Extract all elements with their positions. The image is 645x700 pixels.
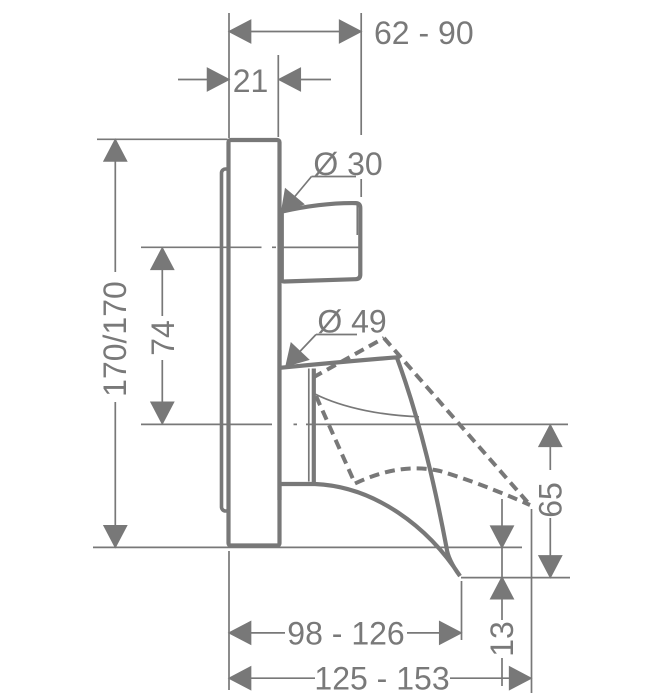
dimension 125-153 line bbox=[251, 677, 510, 679]
bottom extension line projected tip (x=531) bbox=[531, 509, 533, 693]
svg-text:21: 21 bbox=[233, 63, 269, 99]
svg-text:Ø 49: Ø 49 bbox=[317, 304, 386, 340]
dimension 170/170 line bbox=[114, 140, 116, 546]
dimension 98-126 arrow right bbox=[440, 622, 461, 644]
svg-text:170/170: 170/170 bbox=[97, 281, 133, 397]
reference line plate bottom (y=547) bbox=[93, 546, 522, 548]
handle face edge bbox=[356, 205, 358, 236]
dashed projected spout bottom curve bbox=[355, 468, 530, 505]
spout inner lip curve bbox=[315, 394, 419, 417]
centerline of spout bbox=[141, 423, 568, 425]
svg-text:65: 65 bbox=[532, 482, 568, 518]
dimension 65 line bbox=[549, 445, 551, 556]
dimension 98-126 arrow left bbox=[230, 622, 251, 644]
extension line handle front (x=361) bbox=[360, 13, 362, 197]
dashed projected spout front edge bbox=[384, 338, 530, 505]
svg-text:98 - 126: 98 - 126 bbox=[287, 616, 404, 652]
leader arrow for Ø49 bbox=[286, 344, 308, 366]
svg-text:125 - 153: 125 - 153 bbox=[314, 661, 449, 697]
spout base disc front edge bbox=[312, 369, 316, 484]
dimension 21 arrow left bbox=[208, 69, 229, 91]
bottom extension line left (x=230) bbox=[228, 551, 230, 690]
wall flange (basic set) bbox=[222, 169, 236, 511]
bottom extension line spout tip (x=461) bbox=[461, 581, 463, 640]
leader line for Ø30 bbox=[284, 177, 356, 210]
dimension 125-153 arrow left bbox=[230, 667, 251, 689]
dimension 98-126 line bbox=[251, 632, 440, 634]
dimension 65 arrow bottom bbox=[539, 556, 561, 577]
spout base disc back edge bbox=[308, 369, 310, 482]
dimension 125-153 arrow right bbox=[510, 667, 531, 689]
dimension 170/170 arrow top bbox=[104, 140, 126, 161]
dimension 74 arrow top bbox=[151, 248, 173, 269]
dashed projected spout back edge bbox=[316, 396, 355, 484]
extension line plate front (x=278) bbox=[277, 55, 279, 137]
dimension 62-90 line bbox=[230, 31, 360, 33]
dimension 65 arrow top bbox=[539, 425, 561, 446]
dimension 74 arrow bottom bbox=[151, 402, 173, 423]
dimension 62-90 arrow right bbox=[340, 21, 361, 43]
centerline of handle bbox=[141, 246, 360, 248]
escutcheon plate bbox=[229, 140, 280, 546]
leader line for Ø49 bbox=[289, 335, 358, 364]
svg-text:13: 13 bbox=[484, 621, 520, 657]
dimension 13 arrow upper bbox=[491, 526, 513, 547]
svg-text:62 - 90: 62 - 90 bbox=[374, 15, 474, 51]
dimension 13 arrow lower bbox=[491, 578, 513, 599]
svg-text:Ø 30: Ø 30 bbox=[313, 146, 382, 182]
dimension 21 tails bbox=[178, 79, 331, 81]
dimension 21 arrow right bbox=[279, 69, 300, 91]
dimension 62-90 arrow left bbox=[230, 21, 251, 43]
reference line spout tip (y=578) bbox=[461, 577, 570, 579]
extension line left (plate top / x=229) bbox=[228, 13, 230, 138]
dimension 13 upper tail bbox=[501, 499, 503, 577]
handle (Ø30) bbox=[282, 203, 361, 281]
spout body (Ø49) bbox=[279, 357, 461, 576]
dashed projected spout upper-left edge bbox=[313, 338, 384, 378]
handle parting line bbox=[283, 246, 360, 248]
dimension 170/170 arrow bottom bbox=[104, 526, 126, 547]
dimension 13 lower tail bbox=[501, 598, 503, 686]
extension line 170 top bbox=[97, 138, 228, 140]
dimension 74 line bbox=[161, 269, 163, 403]
plate front edge repair bbox=[277, 350, 281, 500]
leader arrow for Ø30 bbox=[282, 189, 303, 211]
svg-text:74: 74 bbox=[145, 320, 181, 356]
